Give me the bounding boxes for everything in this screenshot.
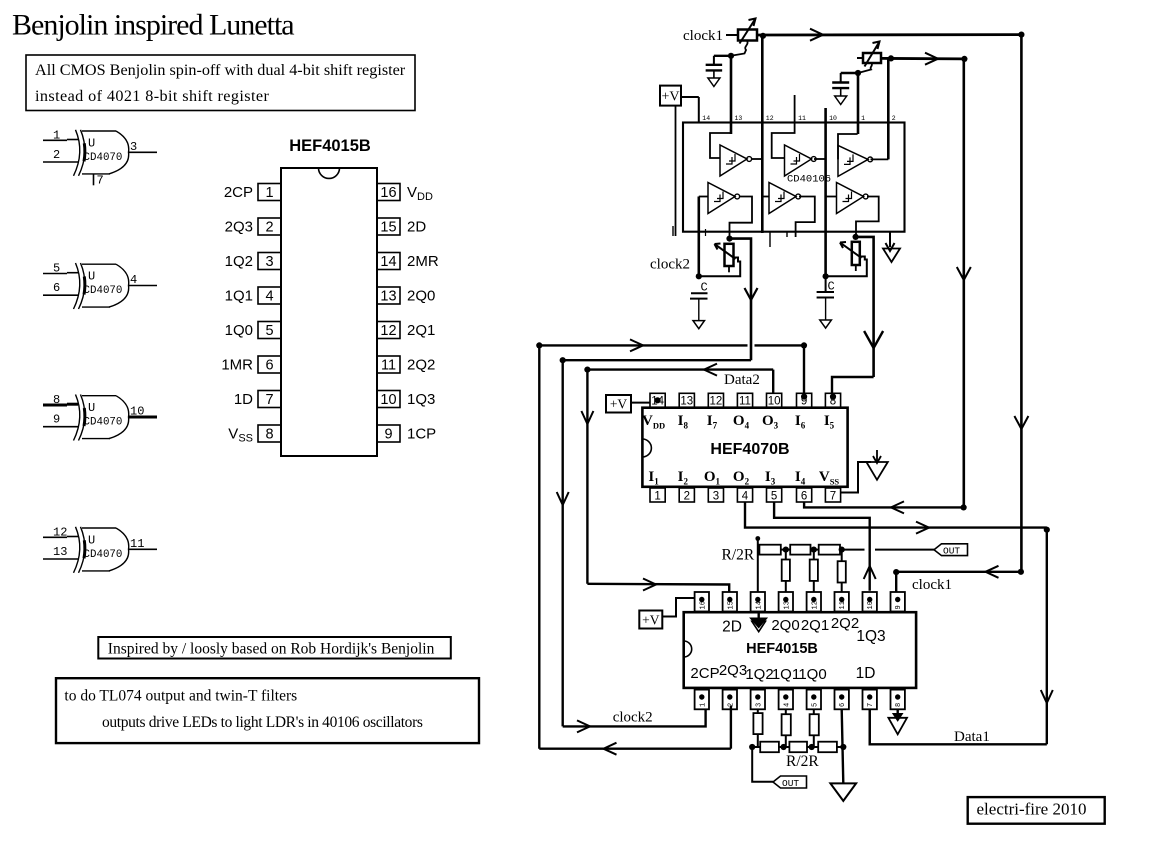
wire pin6 bottom to ground [842,709,844,783]
pin numbers above CD40106 [702,115,896,122]
IC pinout diagram HEF4015B [221,137,439,456]
svg-text:6: 6 [839,703,847,707]
svg-text:CD4070: CD4070 [84,549,123,561]
wire wiper node to cap C1 [714,55,731,57]
svg-text:6: 6 [53,281,60,295]
svg-text:OUT: OUT [943,546,960,557]
HEF4015B bottom pin boxes [695,690,905,710]
svg-text:clock2: clock2 [613,710,653,726]
potentiometer R2 (osc2) [857,42,881,67]
svg-text:4: 4 [130,273,137,287]
junction dot bus C top corner [584,367,590,373]
junction dot R1 wiper node [728,53,734,59]
wire clock2 output down-left path [730,239,752,361]
svg-text:4: 4 [742,491,749,503]
junction dot bus B top corner [560,357,566,363]
svg-text:14: 14 [380,254,396,270]
svg-text:13: 13 [380,289,396,305]
inverter U1C (40106) top row 3 [838,134,888,176]
svg-text:Data2: Data2 [724,372,760,388]
xor gate U CD4070 pins 5,6 -> 4 [43,262,157,310]
junction dot inverter4 output node [726,236,732,242]
IC HEF4015B lower body [684,612,916,688]
svg-text:+V: +V [610,397,628,412]
ground symbol inside HEF4015B at pin 3 [750,612,767,632]
junction dot inverter6 output node [853,234,859,240]
svg-text:10: 10 [130,405,144,419]
svg-text:11: 11 [839,601,847,609]
wiper of R1 to cap node [731,41,748,56]
svg-text:electri-fire 2010: electri-fire 2010 [977,800,1087,819]
svg-text:2CP: 2CP [690,665,719,682]
resistor 2R to pin 5 [810,550,818,592]
wire bus line B (clock2 to 2CP) [557,360,751,732]
ground at HEF4015B bottom pin 8 [888,709,907,734]
svg-text:11: 11 [381,358,396,374]
wire clock1 right riser [1014,35,1028,572]
xor gate U CD4070 pins 8,9 -> 10 [43,393,157,441]
potentiometer R1 (clock1 rate) [738,19,757,44]
svg-text:1MR: 1MR [221,357,253,374]
capacitor C2 and ground [832,73,849,105]
HEF4070B top pin boxes 14-8 [650,393,841,407]
svg-text:1: 1 [53,128,60,142]
svg-text:12: 12 [53,525,67,539]
svg-text:2Q3: 2Q3 [719,662,747,679]
IC CD40106 body [683,123,905,232]
svg-text:clock1: clock1 [912,577,952,593]
junction dot on pin 8 [830,394,836,400]
svg-text:10: 10 [380,392,396,408]
svg-text:5: 5 [265,323,273,339]
junction dot top-right clock1 corner [1018,31,1024,37]
svg-text:2: 2 [727,703,735,707]
wire bus line A (2Q3 to I6) [539,339,804,754]
svg-text:16: 16 [380,185,396,201]
svg-text:8: 8 [895,703,903,707]
svg-text:8: 8 [265,427,273,443]
svg-text:1Q0: 1Q0 [798,666,826,683]
svg-text:+V: +V [642,613,660,628]
svg-text:8: 8 [53,393,60,407]
svg-text:1Q3: 1Q3 [407,391,435,408]
wire wiper node down to inverter 3 input [857,73,860,134]
svg-text:2Q1: 2Q1 [407,322,435,339]
svg-text:15: 15 [380,220,396,236]
svg-text:1Q3: 1Q3 [856,628,885,645]
svg-text:1: 1 [265,185,273,201]
xor gate U CD4070 pins 12,13 -> 11 [43,525,157,573]
junction dot osc2 right corner [961,56,967,62]
wiper of R4 to cap node [826,257,867,277]
+V power box for HEF4070B [606,395,650,413]
junction dots on upper ladder [755,536,844,553]
wire osc2 output node to right riser [881,53,964,65]
wiper of R2 to cap node [858,63,872,73]
OUT tag (lower) [773,776,807,789]
svg-text:1CP: 1CP [407,426,436,443]
R/2R upper ladder [758,538,934,593]
svg-text:1Q2: 1Q2 [225,253,253,270]
svg-text:11: 11 [130,537,144,551]
svg-text:CD4070: CD4070 [84,417,123,429]
svg-text:4: 4 [783,703,791,707]
svg-text:11: 11 [798,115,806,122]
svg-text:CD4070: CD4070 [84,152,123,164]
svg-text:7: 7 [97,173,104,187]
junction dot line A to pin9 riser [801,342,807,348]
svg-text:10: 10 [829,115,837,122]
wire I4 pin6 from osc2 riser [804,501,964,513]
svg-text:2D: 2D [722,619,742,636]
svg-text:7: 7 [265,392,273,408]
big arrow down on osc4 drop [864,331,883,348]
svg-text:1: 1 [654,491,660,503]
svg-text:clock2: clock2 [650,257,690,273]
wire inverter2 output through line [824,108,827,276]
wire clock1 feed to 4015 pin8 [896,566,1021,592]
potentiometer R4 (osc4, vertical) [840,242,862,271]
svg-text:1: 1 [861,115,865,122]
svg-text:12: 12 [766,115,774,122]
svg-text:15: 15 [727,601,735,609]
junction dot on pin 9 [801,394,807,400]
pin stubs below CD40106 [673,226,787,247]
svg-text:OUT: OUT [782,778,799,789]
svg-text:U: U [88,136,95,150]
svg-text:HEF4015B: HEF4015B [289,137,371,155]
junction dot Data1 top corner [1044,527,1050,533]
svg-text:3: 3 [130,140,137,154]
note box: All CMOS Benjolin spin-off [26,55,415,111]
inverter U1B (40106) top row 2 [772,95,826,176]
svg-text:HEF4015B: HEF4015B [746,641,818,657]
HEF4070B bottom pin labels [648,469,839,487]
junction dot osc2 riser to I4 [961,504,967,510]
svg-text:to do TL074 output and twin-T: to do TL074 output and twin-T filters [64,688,297,705]
svg-text:2: 2 [53,148,60,162]
svg-text:Data1: Data1 [954,729,990,745]
svg-text:5: 5 [811,703,819,707]
svg-text:CD4070: CD4070 [84,285,123,297]
svg-text:2: 2 [684,491,690,503]
svg-text:2Q2: 2Q2 [407,357,435,374]
wire: left rail below +V [675,106,677,236]
svg-text:outputs drive LEDs to light LD: outputs drive LEDs to light LDR's in 401… [102,714,423,731]
svg-text:U: U [88,270,95,284]
svg-text:2Q0: 2Q0 [771,617,799,634]
wire bus line C Data2 (I7 to 2D) [581,364,773,592]
wire inverter4 input line down to osc3 node [697,197,700,277]
lower R/2R ladder [752,709,843,752]
svg-text:Inspired by / loosly based on: Inspired by / loosly based on Rob Hordij… [108,641,435,658]
svg-text:6: 6 [801,491,807,503]
svg-text:All CMOS Benjolin spin-off wit: All CMOS Benjolin spin-off with dual 4-b… [35,61,406,79]
capacitor C3 (osc3) with label C and ground [690,281,708,329]
svg-text:2MR: 2MR [407,253,439,270]
junction dot on pin 14 (VDD) [655,397,661,403]
svg-text:2Q0: 2Q0 [407,288,435,305]
arrow down on clock2 drop [745,288,758,300]
svg-text:9: 9 [895,605,903,609]
svg-text:11: 11 [739,396,751,408]
big ground triangle below ladder [830,783,856,801]
svg-text:2: 2 [892,115,896,122]
svg-text:R/2R: R/2R [786,753,819,770]
svg-text:5: 5 [771,491,777,503]
inverter U1F (40106) bottom row 3 [826,183,879,237]
junction dot clock1 output node [760,33,766,39]
HEF4015B inner labels bottom [690,662,875,683]
svg-text:12: 12 [380,323,396,339]
wire riser into HEF4070B pin 9 [803,345,805,393]
svg-text:1Q1: 1Q1 [225,288,253,305]
svg-text:3: 3 [713,491,719,503]
inverter U1E (40106) bottom row 2 [762,183,815,238]
wire osc2 right riser [957,59,971,508]
svg-text:16: 16 [699,601,707,609]
signature box electri-fire 2010 [968,797,1105,824]
wire O1 pin3... pin5 to 4015 pin7 [774,502,876,591]
svg-text:instead of 4021 8-bit shift re: instead of 4021 8-bit shift register [35,87,269,105]
xor gate U CD4070 pins 1,2 -> 3 [43,128,157,187]
svg-text:13: 13 [680,396,693,408]
+V power box for HEF4015B [639,598,694,629]
HEF4015B inner labels top [722,615,886,645]
svg-text:7: 7 [830,491,836,503]
svg-text:2CP: 2CP [224,184,253,201]
wire osc4 drop to HEF4070B pin 8 [832,377,874,393]
resistor 2R to pin 6 [838,550,846,592]
wire O2 pin4 to Data1 loop [745,502,1053,744]
junction dot osc2 output node [888,55,894,61]
wire pin7 bottom to Data1 [869,709,871,744]
svg-text:6: 6 [265,358,273,374]
svg-text:2Q1: 2Q1 [801,617,829,634]
svg-text:2D: 2D [407,219,426,236]
svg-text:Benjolin inspired Lunetta: Benjolin inspired Lunetta [12,9,294,42]
wire VSS pin7 to ground [841,462,871,493]
junction dot clock1 riser corner [1018,569,1024,575]
svg-text:14: 14 [755,601,763,609]
svg-text:13: 13 [53,545,67,559]
HEF4070B bottom pin boxes 1-7 [650,488,841,503]
wire wiper node to cap C2 [841,72,858,74]
IC HEF4070B body [642,408,847,487]
ground below CD40106 [883,232,900,262]
HEF4070B top pin labels [642,413,835,431]
capacitor C4 (osc4) with label C and ground [817,276,835,328]
svg-text:HEF4070B: HEF4070B [710,441,789,458]
svg-text:13: 13 [783,601,791,609]
svg-text:14: 14 [702,115,710,122]
svg-text:10: 10 [768,396,781,408]
svg-text:U: U [88,401,95,415]
svg-text:3: 3 [265,254,273,270]
svg-text:2: 2 [265,220,273,236]
svg-text:5: 5 [53,262,60,276]
wire clock1 output to right edge [757,29,1021,41]
+V power box for CD40106 [660,86,699,123]
OUT tag (upper) [934,544,968,557]
svg-text:10: 10 [867,601,875,609]
wire clock1 to pot R1 [726,34,738,36]
note box: to do [56,678,479,743]
svg-text:U: U [88,533,95,547]
svg-text:12: 12 [811,601,819,609]
ground for HEF4070B VSS [866,450,887,480]
svg-text:clock1: clock1 [683,28,723,44]
junction dot osc3 cap node [696,273,702,279]
junction dots on lower ladder [749,744,846,750]
svg-text:9: 9 [384,427,392,443]
note box: Inspired by Rob Hordijk's Benjolin [98,637,451,659]
HEF4015B top pin boxes [695,592,905,612]
svg-text:7: 7 [867,703,875,707]
wire inverter3 output riser to osc2 node [887,58,890,159]
wiper of R3 to cap node [699,258,740,277]
wire ladder left end to OUT tag [752,747,773,782]
wire osc4 output to long right drop [856,237,874,377]
svg-text:1Q1: 1Q1 [772,666,800,683]
junction dot clock1 to pin8 [893,569,899,575]
svg-text:1Q0: 1Q0 [225,322,253,339]
svg-text:2Q2: 2Q2 [831,615,859,632]
svg-text:1Q2: 1Q2 [745,666,773,683]
wire inverter1 output riser (through line) [761,36,764,233]
svg-text:R/2R: R/2R [722,547,755,564]
junction dot R2 wiper node [855,70,861,76]
svg-text:2Q3: 2Q3 [225,219,253,236]
svg-text:3: 3 [755,703,763,707]
svg-text:13: 13 [735,115,743,122]
junction dot osc4 cap node [823,273,829,279]
capacitor C1 and ground [706,56,723,87]
svg-text:1: 1 [699,703,707,707]
svg-text:9: 9 [53,413,60,427]
svg-text:1D: 1D [234,391,253,408]
inverter U1D (40106) bottom row 1 [699,183,752,239]
junction dot bus A top corner [536,342,542,348]
wire wiper node down to inverter 1 input pin [730,56,733,134]
svg-text:4: 4 [265,289,273,305]
resistor 2R to pin 4 [782,550,790,592]
inverter U1A (40106) top row 1 [710,123,762,177]
svg-text:1D: 1D [856,665,876,682]
svg-text:12: 12 [710,396,723,408]
potentiometer R3 (clock2 rate, vertical) [715,244,736,273]
svg-text:+V: +V [661,90,679,105]
